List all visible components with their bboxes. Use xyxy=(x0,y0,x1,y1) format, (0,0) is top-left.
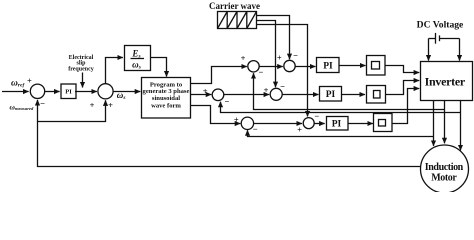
svg-text:−: − xyxy=(280,82,285,92)
PI speed controller block xyxy=(61,84,76,99)
svg-text:Motor: Motor xyxy=(431,172,457,183)
summing junction B xyxy=(270,88,282,100)
svg-text:Inverter: Inverter xyxy=(425,74,466,88)
wire Es over ws block to program block top xyxy=(151,58,167,77)
comparator block K1 xyxy=(367,56,386,76)
battery V1 xyxy=(429,38,436,40)
svg-text:+: + xyxy=(241,53,246,63)
svg-text:PI: PI xyxy=(332,120,342,130)
wire current feedback phase c to C xyxy=(248,130,434,136)
svg-text:PI: PI xyxy=(323,61,333,71)
svg-text:PI: PI xyxy=(65,89,72,96)
wire carrier to T2 xyxy=(257,16,290,60)
wire program output phase c to junction C xyxy=(191,106,241,124)
induction motor M1 xyxy=(421,145,469,193)
wire carrier to B xyxy=(257,21,276,88)
svg-text:+: + xyxy=(297,124,302,134)
wire current feedback phase a to T1 xyxy=(254,73,445,109)
wire K2 to inverter input 2 xyxy=(386,81,420,95)
wire T2 to PI1 xyxy=(295,66,315,68)
program block xyxy=(142,78,191,119)
svg-text:+: + xyxy=(264,85,269,95)
PI controller PI1 xyxy=(317,58,340,73)
svg-text:ωref: ωref xyxy=(11,78,25,88)
wire program output phase b to junction A xyxy=(191,94,212,96)
wire current feedback phase b to A xyxy=(221,102,461,113)
svg-text:+: + xyxy=(27,75,32,85)
svg-text:ωs: ωs xyxy=(132,59,141,70)
wire S1 to PI speed controller xyxy=(45,91,60,93)
svg-text:+: + xyxy=(90,100,95,110)
svg-text:+: + xyxy=(234,115,239,125)
wire K3 to inverter input 3 xyxy=(392,89,419,124)
wire S2 to program block xyxy=(113,91,140,93)
wire C to D xyxy=(253,123,302,125)
summing junction T2 xyxy=(284,60,295,71)
svg-text:+: + xyxy=(108,100,113,110)
summing junction A xyxy=(212,89,224,101)
block U1 Es over ws xyxy=(125,46,151,71)
summing junction C xyxy=(241,117,253,129)
wire battery negative to inverter xyxy=(459,39,461,61)
wire K1 to inverter input 1 xyxy=(385,66,419,73)
wire T1 to T2 xyxy=(259,66,283,68)
svg-text:Es: Es xyxy=(131,48,140,59)
comparator block K2 xyxy=(367,86,386,104)
carrier wave generator box xyxy=(218,12,257,29)
summing junction S2 xyxy=(98,84,113,99)
comparator block K3 xyxy=(374,114,393,132)
wire speed feedback from motor to S1 xyxy=(38,100,421,167)
svg-text:−: − xyxy=(253,124,258,134)
svg-text:−: − xyxy=(258,67,263,77)
wire PI to summing junction S2 xyxy=(75,91,97,93)
wire speed reference input xyxy=(2,91,29,93)
svg-text:DC Voltage: DC Voltage xyxy=(417,19,464,30)
svg-text:+: + xyxy=(277,52,282,62)
PI controller PI3 xyxy=(327,117,349,131)
svg-text:−: − xyxy=(293,50,298,60)
svg-text:Carrier wave: Carrier wave xyxy=(209,1,260,11)
svg-text:wave form: wave form xyxy=(151,103,181,110)
svg-text:PI: PI xyxy=(326,90,336,100)
wire inverter phase c to motor xyxy=(460,101,462,151)
inverter block xyxy=(421,62,473,101)
svg-text:−: − xyxy=(224,96,229,106)
pointer arrow from slip frequency label to wire xyxy=(82,73,84,88)
wire program output phase a to junction T1 xyxy=(191,67,247,84)
wire inverter phase a to motor xyxy=(433,101,435,147)
wire speed feedback branch to S2 xyxy=(38,100,106,121)
wire carrier to D xyxy=(257,25,308,117)
wire PI2 to comparator K2 xyxy=(342,94,366,96)
svg-text:frequency: frequency xyxy=(68,67,94,73)
wire PI3 to comparator K3 xyxy=(348,123,373,125)
svg-text:sinusoidal: sinusoidal xyxy=(152,95,180,102)
summing junction S1 xyxy=(30,84,44,98)
wire S2 up to Es over ws block xyxy=(106,58,123,84)
sawtooth waveform xyxy=(218,12,257,29)
summing junction T1 xyxy=(248,61,259,72)
PI controller PI2 xyxy=(320,87,342,102)
wire A to B xyxy=(224,94,269,96)
wire inverter phase b to motor xyxy=(444,101,446,144)
svg-text:+: + xyxy=(203,86,208,96)
wire PI1 to comparator K1 xyxy=(339,65,366,67)
svg-text:ωmeasured: ωmeasured xyxy=(10,102,35,111)
svg-text:−: − xyxy=(40,99,45,109)
wire D to PI3 xyxy=(314,123,325,125)
wire battery positive to inverter xyxy=(428,39,430,61)
wire B to PI2 xyxy=(282,94,318,96)
summing junction D xyxy=(303,118,314,129)
